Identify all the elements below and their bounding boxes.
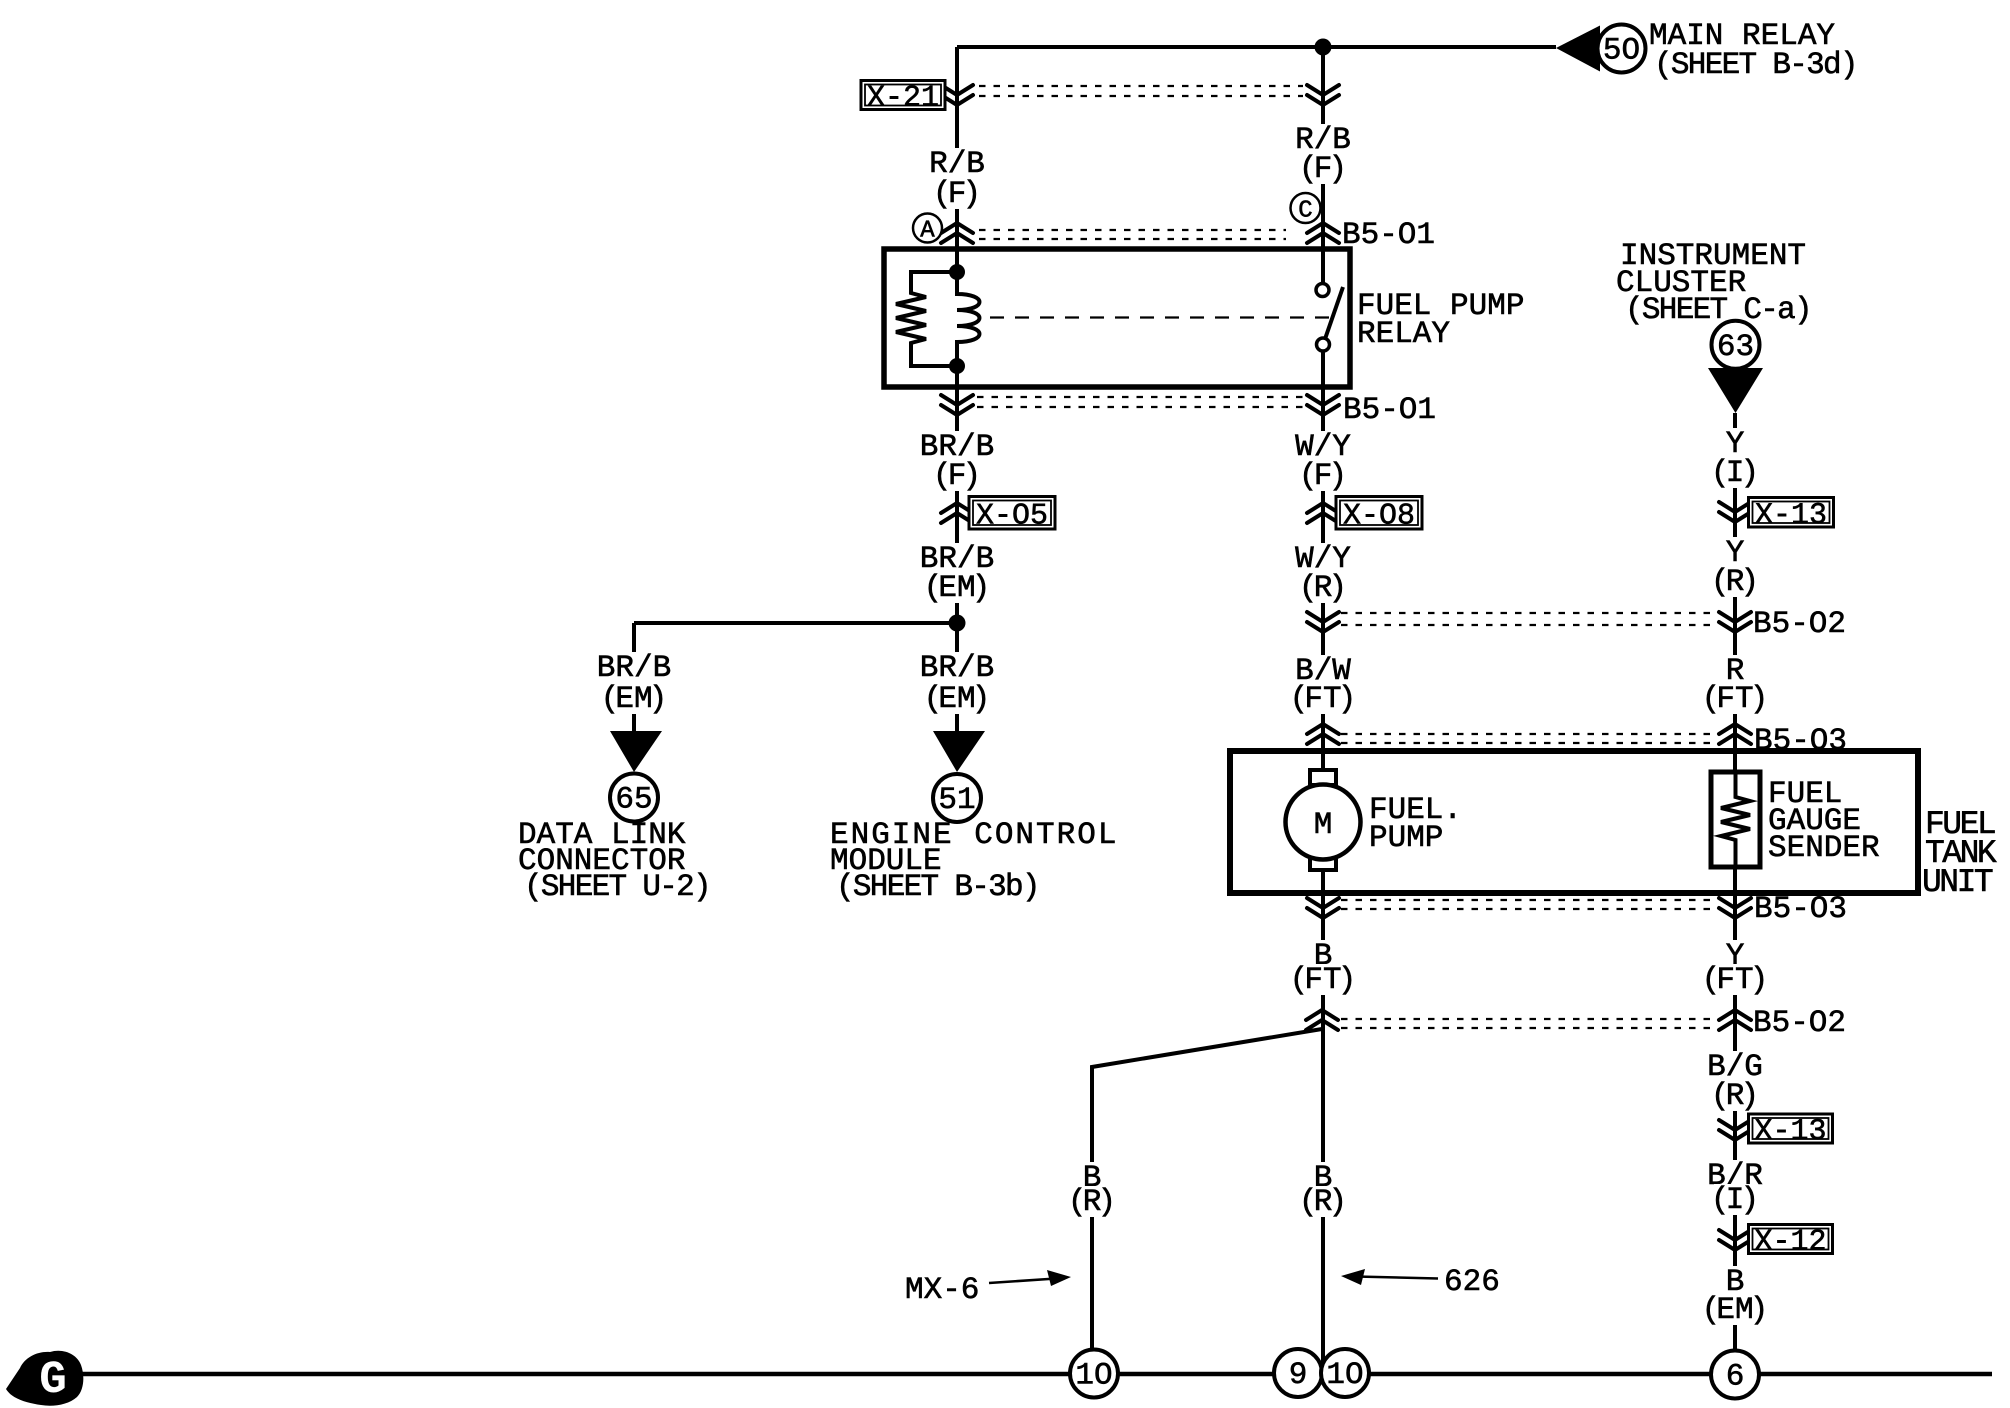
wire label (R) at x=1735,y=590 [1714,566,1756,597]
svg-text:SENDER: SENDER [1768,831,1880,866]
wire label BR/B at x=957,y=567 [917,543,997,574]
svg-text:63: 63 [1717,330,1754,365]
connector B5-02 lower right chevrons [1719,1010,1751,1030]
sheet circle 51 engine control module [933,774,981,822]
svg-text:X-O8: X-O8 [1343,499,1415,533]
pin C circle [1291,193,1321,223]
svg-text:(FT): (FT) [1702,682,1769,717]
wire label (R) at x=1323,y=596 [1302,572,1344,603]
instrument cluster triangle (63) [1708,368,1763,413]
wire label BR/B at x=634,y=676 [594,652,674,683]
svg-text:(F): (F) [933,177,981,212]
pin A circle [913,214,942,243]
connector X-08 chevrons [1307,503,1339,523]
svg-text:(FT): (FT) [1702,963,1769,998]
wire label B at x=1323,y=1186 [1311,1162,1336,1193]
svg-text:(R): (R) [1068,1185,1116,1220]
svg-text:X-12: X-12 [1754,1226,1826,1260]
connector box X-05 [969,497,1055,530]
wire: instrument cluster Y wire down to ground circle 6 [1733,413,1737,1351]
wire: fuel pump motor to ground bus [1321,869,1325,1374]
fuel pump motor [1286,785,1361,860]
svg-text:B5-O3: B5-O3 [1754,724,1847,759]
svg-text:BR/B: BR/B [597,651,671,686]
connector B5-03 lower right chevrons [1719,898,1751,918]
svg-text:9: 9 [1289,1358,1308,1393]
wire: MX-6 branch diagonal + vertical B(R) [1092,1029,1322,1349]
wire: BR/B(F) from relay coil down to ECM [955,366,959,731]
connector B5-03 upper right chevrons [1719,724,1751,744]
svg-text:(R): (R) [1299,1185,1347,1220]
connector X-13 upper chevrons [1719,502,1751,522]
svg-text:65: 65 [615,783,652,818]
dashed link B5-01 upper row [979,230,1286,239]
junction dot BR/B branch [949,615,966,632]
fuel tank unit box [1230,751,1918,893]
connector B5-02 upper left chevrons [1307,612,1339,632]
wire label B at x=1735,y=1290 [1723,1266,1748,1297]
wire label Y at x=1735,y=452 [1723,428,1748,459]
connector X-13 lower chevrons [1719,1120,1751,1140]
wire: top horizontal from fuel pump relay to main relay arrow [957,45,1556,49]
svg-text:X-13: X-13 [1754,1115,1826,1149]
svg-text:BR/B: BR/B [920,651,994,686]
svg-text:(R): (R) [1711,1079,1759,1114]
wire label (FT) at x=1735,y=988 [1705,964,1765,995]
junction dot relay coil top [949,264,965,280]
ground circle 6 [1711,1351,1759,1399]
main relay arrow triangle [1556,26,1600,72]
MX-6 pointer arrow [989,1279,1056,1284]
svg-text:(EM): (EM) [1702,1293,1769,1328]
wire label Y at x=1735,y=561 [1723,537,1748,568]
connector box X-13 lower [1749,1114,1833,1143]
connector box X-08 [1336,497,1422,530]
wire label R at x=1735,y=679 [1723,655,1748,686]
wire: BR/B(EM) down to data link connector [632,623,636,731]
connector B5-01 pin C chevrons [1307,223,1339,243]
svg-text:RELAY: RELAY [1357,317,1450,352]
fuel pump motor terminal bottom [1310,855,1336,870]
relay coil resistor (parallel) [896,272,957,366]
wire label BR/B at x=957,y=676 [917,652,997,683]
svg-text:(EM): (EM) [601,682,668,717]
connector box X-13 upper [1749,498,1834,528]
relay internal dashed actuation line [990,316,1331,318]
svg-text:PUMP: PUMP [1369,821,1443,856]
svg-text:(SHEET C-a): (SHEET C-a) [1625,293,1811,328]
wire label (FT) at x=1323,y=707 [1293,683,1353,714]
svg-text:(EM): (EM) [924,571,991,606]
dashed link B5-02 lower row [1341,1019,1714,1028]
svg-text:(SHEET U-2): (SHEET U-2) [524,870,710,905]
svg-text:(I): (I) [1711,1183,1759,1218]
wire: right vertical R/B(F) into relay switch [1321,47,1325,284]
wire: horizontal branch BR/B(EM) to data link connector [634,621,957,625]
wire label (EM) at x=957,y=707 [927,683,987,714]
connector X-21 left chevrons [941,85,973,105]
wire label R/B at x=957,y=172 [926,148,988,179]
ground circle 9 [1274,1349,1322,1397]
svg-text:1O: 1O [1075,1359,1112,1394]
fuel gauge sender resistor [1721,772,1750,867]
svg-text:B5-O2: B5-O2 [1753,1006,1846,1041]
connector B5-02 lower left chevrons [1306,1010,1338,1030]
dashed link B5-03 upper row [1341,734,1712,743]
dashed link X-21 row [979,86,1303,96]
ground circle 10 (MX-6) [1070,1350,1118,1398]
svg-text:X-21: X-21 [867,82,939,116]
ground bus [82,1372,1992,1377]
svg-text:M: M [1314,808,1333,843]
connector B5-01 lower left chevrons [941,395,973,415]
svg-text:1O: 1O [1326,1358,1363,1393]
wire label (EM) at x=1735,y=1318 [1705,1294,1765,1325]
svg-text:MX-6: MX-6 [905,1273,979,1308]
connector B5-03 upper left chevrons [1307,724,1339,744]
svg-text:(FT): (FT) [1290,963,1357,998]
svg-text:(FT): (FT) [1290,682,1357,717]
fuel gauge sender box [1711,772,1760,867]
svg-text:X-13: X-13 [1755,499,1827,533]
relay coil [957,272,980,366]
relay switch arm [1325,287,1343,339]
wire label (EM) at x=957,y=596 [927,572,987,603]
wire label (I) at x=1735,y=481 [1714,457,1756,488]
svg-text:626: 626 [1444,1265,1500,1300]
wire: relay switch output W/Y down to fuel pump motor [1321,351,1325,771]
wire label BR/B at x=957,y=455 [917,431,997,462]
connector X-12 chevrons [1719,1230,1751,1250]
wire label Y at x=1735,y=964 [1723,940,1748,971]
ground circle 10 (626) [1321,1349,1369,1397]
dashed link B5-03 lower row [1341,900,1712,909]
svg-text:5O: 5O [1603,34,1640,69]
connector box X-21 [861,81,945,110]
wire label B/G at x=1735,y=1075 [1704,1051,1766,1082]
svg-text:UNIT: UNIT [1922,864,1993,901]
svg-text:B5-O3: B5-O3 [1754,892,1847,927]
connector box X-12 [1749,1225,1833,1254]
wire label (R) at x=1092,y=1210 [1071,1186,1113,1217]
626 pointer arrow [1356,1277,1438,1279]
junction dot relay coil bottom [949,358,965,374]
svg-text:(F): (F) [933,459,981,494]
wire label (I) at x=1735,y=1208 [1714,1184,1756,1215]
svg-text:A: A [920,218,935,245]
wire label (F) at x=957,y=484 [936,460,978,491]
svg-text:(I): (I) [1711,456,1759,491]
wire: left vertical R/B(F) into relay coil top junction [955,47,959,272]
wire label (F) at x=957,y=202 [936,178,978,209]
dashed link B5-01 lower row [977,397,1303,407]
relay switch lower contact [1317,338,1330,351]
dashed link B5-02 upper row [1341,613,1714,625]
fuel pump relay box [884,249,1350,387]
sheet circle 65 data link connector [610,774,658,822]
svg-text:51: 51 [938,783,975,818]
svg-text:(R): (R) [1299,571,1347,606]
connector B5-01 pin A chevrons [941,223,973,243]
wire label B/R at x=1735,y=1184 [1704,1160,1766,1191]
svg-text:X-O5: X-O5 [976,499,1048,533]
sheet circle 63 instrument cluster [1712,321,1760,369]
wire label B/W at x=1323,y=679 [1292,655,1354,686]
wire label (R) at x=1735,y=1104 [1714,1080,1756,1111]
svg-text:B5-O2: B5-O2 [1753,607,1846,642]
connector X-21 row right chevrons [1307,85,1339,105]
data link connector triangle (65) [610,731,662,772]
wire label W/Y at x=1323,y=455 [1292,431,1354,462]
wire label B at x=1323,y=964 [1311,940,1336,971]
svg-text:B5-O1: B5-O1 [1342,218,1435,253]
connector B5-03 lower left chevrons [1307,898,1339,918]
sheet circle 50 main relay [1598,25,1646,73]
svg-text:(F): (F) [1299,152,1347,187]
relay switch upper contact [1316,284,1329,297]
svg-text:6: 6 [1726,1360,1745,1395]
svg-text:G: G [39,1354,67,1406]
ground symbol G (car body) [6,1351,83,1406]
junction dot top wire [1315,39,1332,56]
svg-text:(R): (R) [1711,565,1759,600]
wire label (F) at x=1323,y=177 [1302,153,1344,184]
wire label (F) at x=1323,y=484 [1302,460,1344,491]
wire label R/B at x=1323,y=148 [1292,124,1354,155]
connector B5-02 upper right chevrons [1719,612,1751,632]
svg-text:B5-O1: B5-O1 [1343,393,1436,428]
wire label (FT) at x=1323,y=988 [1293,964,1353,995]
wire label B at x=1092,y=1186 [1080,1162,1105,1193]
wire label W/Y at x=1323,y=567 [1292,543,1354,574]
svg-text:(SHEET B-3d): (SHEET B-3d) [1654,48,1857,83]
wire label (R) at x=1323,y=1210 [1302,1186,1344,1217]
svg-text:(F): (F) [1299,459,1347,494]
connector B5-01 lower right chevrons [1307,395,1339,415]
wire label (FT) at x=1735,y=707 [1705,683,1765,714]
connector X-05 chevrons [941,503,973,523]
wire label (EM) at x=634,y=707 [604,683,664,714]
svg-text:(SHEET B-3b): (SHEET B-3b) [836,870,1039,905]
fuel pump motor terminal top [1310,770,1336,785]
engine control module triangle (51) [933,731,985,772]
svg-text:(EM): (EM) [924,682,991,717]
svg-text:C: C [1298,198,1312,225]
